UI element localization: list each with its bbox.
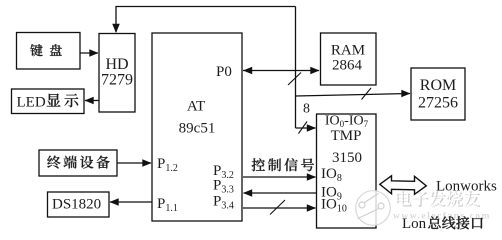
box: RAM 2864 (321, 33, 377, 85)
svg-text:TMP: TMP (331, 128, 362, 144)
wire: P3.4 to IO10 (243, 207, 316, 209)
wire: keyboard to HD7279 (80, 52, 98, 54)
box: HD7279 (99, 34, 135, 113)
wire: P0 to RAM bidirectional bus (243, 70, 319, 72)
svg-text:P0: P0 (216, 64, 232, 80)
wire: bus branch to ROM 27256 (296, 94, 411, 97)
svg-text:8: 8 (303, 102, 310, 117)
box: TMP3150 neuron chip (317, 114, 377, 228)
wire: HD7279 to LED display (85, 100, 99, 102)
label: 终端设备 (47, 156, 109, 169)
wire: vertical bus line down to TMP (295, 7, 297, 129)
wire: bus into TMP IO0-IO7 (296, 127, 316, 129)
svg-text:RAM: RAM (331, 43, 365, 59)
svg-text:2864: 2864 (332, 58, 363, 74)
svg-text:7279: 7279 (101, 72, 133, 89)
svg-text:3150: 3150 (332, 150, 362, 166)
bus slash on IO10 wire (270, 200, 285, 215)
label: 键盘 (30, 44, 61, 56)
box: ROM 27256 (411, 68, 465, 120)
svg-text:DS1820: DS1820 (52, 197, 101, 213)
box: MCU AT89c51 (152, 33, 242, 221)
svg-text:89c51: 89c51 (179, 121, 216, 137)
svg-text:LED: LED (17, 94, 46, 110)
wire: terminal device to P1.2 (117, 162, 151, 164)
svg-text:IO0-IO7: IO0-IO7 (325, 114, 369, 130)
wire: P3.2 to IO8 (243, 176, 316, 178)
bus slash on P0-RAM wire (288, 73, 301, 86)
watermark text: 电子发烧友 embossed (397, 191, 480, 207)
svg-text:Lon: Lon (402, 216, 427, 232)
label: 控制信号 control signal (252, 158, 314, 171)
bus slash on ROM wire (362, 88, 372, 100)
bus slash on TMP wire (299, 122, 308, 134)
wire: P1.1 to DS1820 (110, 201, 152, 203)
svg-text:HD: HD (105, 56, 128, 73)
box: DS1820 (48, 192, 110, 217)
watermark logo: elecfans circle icon (356, 191, 391, 226)
box: LED display (12, 89, 85, 114)
connector: Lonworks double block arrow (380, 176, 427, 195)
box: terminal device 终端设备 (39, 150, 117, 176)
svg-text:AT: AT (187, 99, 205, 115)
svg-text:Lonworks: Lonworks (436, 179, 497, 195)
svg-text:ROM: ROM (420, 77, 456, 94)
wire: P0 bus top feedback line to HD7279 (116, 7, 296, 33)
wire: IO9 to P3.3 (244, 192, 317, 194)
svg-text:27256: 27256 (418, 95, 458, 112)
box: keyboard 键盘 (17, 33, 81, 70)
